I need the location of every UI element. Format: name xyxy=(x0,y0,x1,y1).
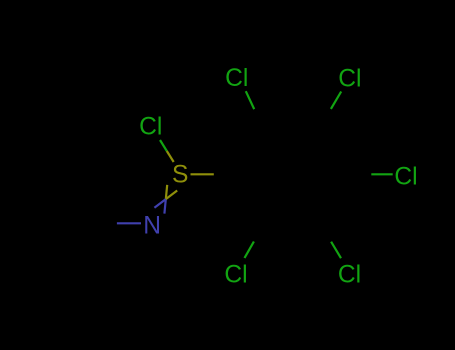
ring C-Cl stub top-left xyxy=(246,91,254,109)
double bond S=N crossed line 2 (shallow), nitrogen half xyxy=(154,199,165,208)
ring C-Cl stub bottom-right xyxy=(331,242,341,259)
bond S-C(ring) visible half xyxy=(191,173,214,175)
svg-text:S: S xyxy=(172,162,188,189)
svg-text:N: N xyxy=(143,212,161,239)
ring C-Cl stub bottom-left xyxy=(245,242,254,259)
double bond S=N crossed line 1 (steep), nitrogen half xyxy=(164,199,165,213)
bond Cl-S (sulfur half) xyxy=(167,151,174,162)
bond Cl-S (green half) xyxy=(160,140,167,151)
double bond S=N crossed line 2 (shallow), sulfur half xyxy=(166,191,177,200)
svg-text:Cl: Cl xyxy=(338,262,361,289)
double bond S=N crossed line 1 (steep), sulfur half xyxy=(166,185,167,199)
ring C-Cl stub top-right xyxy=(331,92,341,109)
svg-text:Cl: Cl xyxy=(224,262,247,289)
svg-text:Cl: Cl xyxy=(225,65,248,92)
bond N-CH3 (blue half; carbon half invisible) xyxy=(117,222,141,224)
svg-text:Cl: Cl xyxy=(394,164,417,191)
ring C-Cl stub right xyxy=(371,173,392,175)
svg-text:Cl: Cl xyxy=(338,65,361,92)
svg-text:Cl: Cl xyxy=(139,114,162,141)
